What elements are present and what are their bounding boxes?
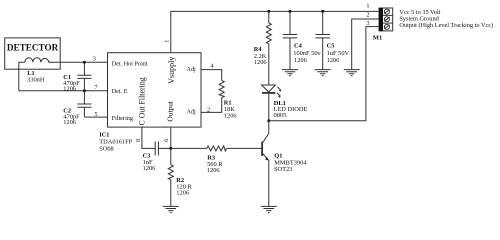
capacitor C3 [155, 141, 158, 155]
wire system ground from connector pin2 [352, 19, 379, 70]
node pin6/C3/R3/R2 junction [169, 147, 172, 150]
wire L1 right to IC pin3 [49, 61, 108, 63]
C4 value label [293, 42, 321, 64]
wire IC pin4 to R1 [201, 70, 222, 81]
svg-text:Det. E: Det. E [112, 88, 128, 95]
wire output node to connector pin3 [269, 27, 379, 121]
svg-text:SO08: SO08 [99, 146, 114, 153]
wire R2 to ground [170, 180, 172, 207]
svg-text:1206: 1206 [207, 167, 220, 174]
svg-text:Filtering: Filtering [112, 115, 133, 122]
resistor R2 [168, 165, 173, 180]
svg-text:4: 4 [211, 63, 214, 70]
terminal 2 screw [384, 17, 389, 22]
wire IC pin6 down [170, 127, 172, 148]
node LED/collector/output junction [267, 119, 270, 122]
svg-text:Adj: Adj [187, 66, 197, 73]
wire node6 to R3 [171, 147, 207, 149]
svg-text:M1: M1 [373, 35, 383, 42]
node top rail / C4 [289, 10, 292, 13]
wire R3 to Q1 base [227, 147, 263, 149]
C5 value label [327, 42, 350, 64]
svg-text:IC1: IC1 [99, 132, 109, 139]
svg-text:6: 6 [163, 139, 170, 142]
ground under Q1 [261, 206, 277, 212]
svg-text:0805: 0805 [274, 112, 287, 119]
wire C3 to node6 [158, 147, 170, 149]
svg-text:DETECTOR: DETECTOR [7, 43, 59, 53]
svg-text:Output (High Level Tracking to: Output (High Level Tracking to Vcc) [399, 22, 493, 29]
R2 value label [176, 177, 192, 196]
R3 value label [207, 155, 223, 174]
svg-text:1206: 1206 [224, 113, 237, 120]
op-amp IC1 TDA0161FP body [108, 53, 202, 127]
resistor R4 [266, 23, 271, 44]
node top rail / R4 [267, 10, 270, 13]
L1 value label [27, 70, 45, 84]
DL1 value label [274, 100, 308, 119]
node top rail / C5 [321, 10, 324, 13]
wire node6 down to R2 [170, 148, 172, 164]
node pin3/C1 junction [83, 61, 86, 64]
svg-text:7: 7 [94, 84, 97, 91]
svg-text:1206: 1206 [294, 57, 307, 64]
ground under R2 [163, 206, 179, 212]
node pin7/C1/C2 junction [83, 89, 86, 92]
svg-text:Det. Hot Point: Det. Hot Point [112, 61, 148, 68]
wire IC pin8 down to C3 [142, 127, 155, 148]
transistor Q1 [262, 121, 269, 207]
svg-text:330nH: 330nH [27, 76, 45, 83]
R1 value label [224, 99, 237, 119]
svg-text:1206: 1206 [63, 86, 76, 93]
resistor R3 [207, 146, 227, 151]
wire R4 to LED [268, 44, 270, 85]
svg-text:TDA0161FP: TDA0161FP [99, 139, 132, 146]
terminal 1 screw [384, 9, 389, 14]
svg-text:SOT23: SOT23 [274, 166, 292, 173]
resistor R1 [219, 81, 224, 98]
detector block [5, 38, 61, 69]
svg-text:Q1: Q1 [274, 152, 282, 159]
svg-text:1206: 1206 [327, 57, 340, 64]
svg-text:8: 8 [135, 139, 142, 142]
Q1 value label [274, 152, 307, 173]
LED DL1 [262, 85, 282, 121]
svg-text:1uF 50V: 1uF 50V [327, 50, 350, 57]
svg-text:Vsupply: Vsupply [167, 57, 176, 84]
capacitor C4 [283, 11, 297, 69]
capacitor C2 [77, 91, 91, 117]
svg-text:1: 1 [366, 3, 369, 10]
wire L1 left down [18, 62, 20, 91]
svg-text:1206: 1206 [63, 119, 76, 126]
terminal 3 screw [384, 24, 389, 29]
svg-text:3: 3 [366, 20, 369, 27]
inductor L1 [19, 58, 50, 63]
wire bottom net to IC pin7 [19, 90, 108, 92]
capacitor C1 [77, 62, 91, 91]
C2 value label [63, 107, 80, 126]
C3 value label [143, 153, 156, 172]
ground system [344, 70, 360, 76]
ground under C4 [282, 70, 298, 76]
svg-text:2: 2 [366, 12, 369, 19]
IC1 reference label [99, 132, 132, 153]
svg-text:1: 1 [163, 40, 170, 43]
R4 value label [254, 46, 267, 66]
wire IC pin1 up and top rail [171, 11, 379, 52]
svg-text:1206: 1206 [143, 165, 156, 172]
connector M1 [379, 8, 393, 31]
svg-text:3: 3 [93, 55, 96, 62]
svg-text:C4: C4 [294, 42, 303, 49]
svg-text:100nF 50v: 100nF 50v [293, 50, 321, 57]
ground under C5 [315, 70, 331, 76]
svg-text:Adj: Adj [187, 108, 197, 115]
C1 value label [63, 74, 80, 93]
wire R1 to IC pin2 [201, 98, 222, 113]
svg-text:5: 5 [94, 111, 97, 118]
wire C2 to IC pin5 [84, 116, 107, 118]
svg-text:1206: 1206 [254, 59, 267, 66]
svg-text:1206: 1206 [176, 189, 189, 196]
wire top rail to R4 [268, 11, 270, 23]
svg-text:C5: C5 [327, 42, 335, 49]
svg-text:Output: Output [166, 100, 175, 121]
svg-text:C Out Filtering: C Out Filtering [138, 77, 147, 125]
capacitor C5 [316, 11, 330, 69]
